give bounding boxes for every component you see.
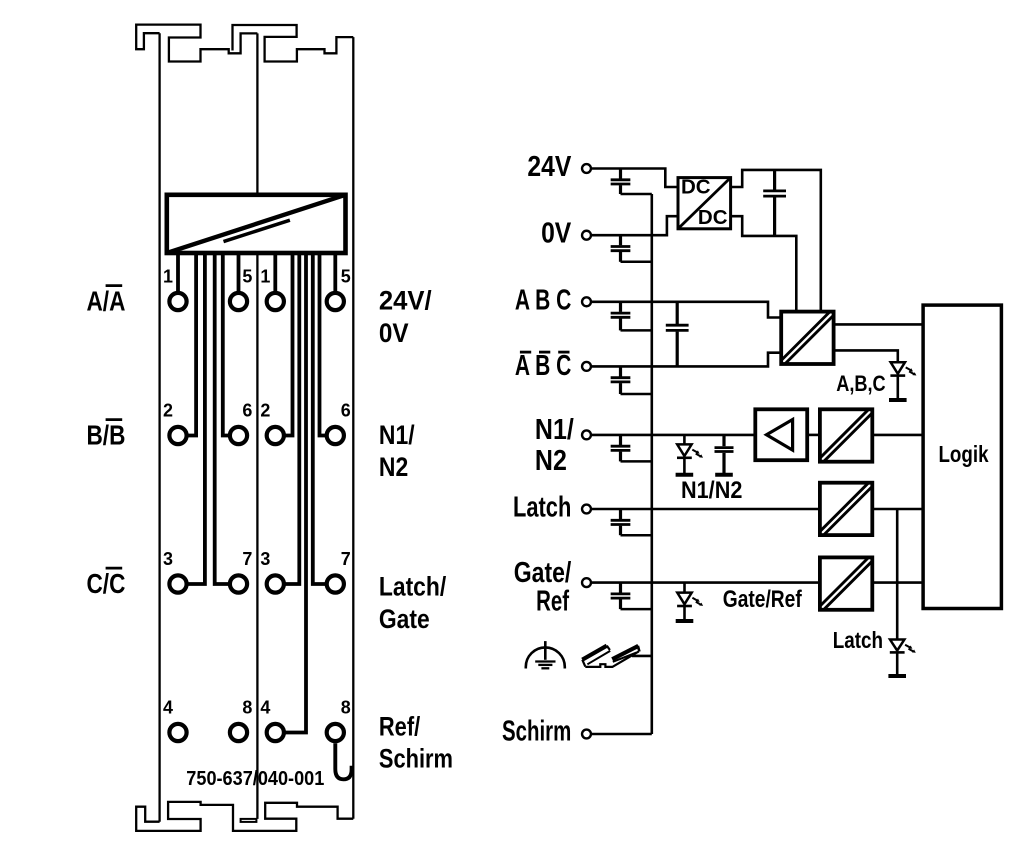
svg-text:B/B: B/B xyxy=(87,420,126,451)
wire Latch to isolator U4 xyxy=(592,508,820,511)
terminal 0V xyxy=(582,231,591,240)
wire 24V to DC/DC xyxy=(592,169,678,188)
capacitor on Abar line xyxy=(611,366,652,394)
contact circle terminal 7 left xyxy=(230,575,247,592)
svg-text:Schirm: Schirm xyxy=(502,716,571,747)
wire N1/N2 to amplifier xyxy=(592,434,756,437)
svg-text:Ref: Ref xyxy=(536,586,570,617)
label B/Bbar xyxy=(87,420,126,451)
contact circle terminal 1 right xyxy=(267,293,284,310)
svg-text:6: 6 xyxy=(341,399,351,420)
terminal Latch xyxy=(582,505,591,514)
contact circle terminal 6 left xyxy=(230,427,247,444)
bus connector K1 box with diagonal xyxy=(167,195,346,253)
wire isolator U5 to Logik xyxy=(872,581,923,584)
terminal 24V xyxy=(582,164,591,173)
shield hook on terminal 8 xyxy=(335,743,351,779)
pin wire terminal 1 right half xyxy=(273,253,277,292)
contact circle terminal 4 left xyxy=(169,724,186,741)
pin wire terminal 2 right half xyxy=(285,253,293,436)
amplifier A1 xyxy=(755,409,807,460)
wire 0V to DC/DC xyxy=(592,216,678,235)
wire center divider of module (upper) xyxy=(256,33,258,194)
pin wire terminal 5 right half xyxy=(333,253,337,292)
pin wire terminal 3 left half xyxy=(187,253,205,584)
svg-text:7: 7 xyxy=(341,547,351,568)
svg-text:A B C: A B C xyxy=(515,284,571,316)
svg-text:Gate/: Gate/ xyxy=(514,558,572,589)
contact circle terminal 4 right xyxy=(267,724,284,741)
svg-text:Ref/: Ref/ xyxy=(379,712,420,742)
wire amplifier to isolator U3 xyxy=(807,434,820,437)
svg-text:N2: N2 xyxy=(379,452,408,482)
wire right wall of terminal module xyxy=(352,37,354,819)
module bottom profile left foot xyxy=(136,802,353,831)
svg-text:0V: 0V xyxy=(541,217,571,249)
wire Gate/Ref to isolator U5 xyxy=(592,581,820,584)
pin wire terminal 2 left half xyxy=(187,253,196,436)
svg-text:Logik: Logik xyxy=(938,442,988,467)
contact circle terminal 1 left xyxy=(169,293,186,310)
svg-text:8: 8 xyxy=(242,696,252,717)
contact circle terminal 3 right xyxy=(267,575,284,592)
module top profile right latch xyxy=(233,25,354,62)
svg-text:1: 1 xyxy=(260,265,270,286)
wire left wall of terminal module xyxy=(158,33,160,822)
wire isolator U3 to Logik xyxy=(872,434,923,437)
svg-text:Latch: Latch xyxy=(513,492,571,523)
svg-text:8: 8 xyxy=(341,696,351,717)
wire isolator U2 to Logik xyxy=(834,323,923,326)
capacitor on Latch line xyxy=(611,509,652,535)
isolator U4 for Latch xyxy=(820,483,872,535)
terminal Schirm xyxy=(582,730,591,739)
module top profile left latch xyxy=(136,25,257,62)
contact circle terminal 5 right xyxy=(327,293,344,310)
capacitor C3 on DC/DC output xyxy=(763,170,786,236)
svg-text:N1/: N1/ xyxy=(535,414,574,446)
svg-text:0V: 0V xyxy=(379,319,409,348)
svg-text:3: 3 xyxy=(163,547,173,568)
contact circle terminal 2 right xyxy=(267,427,284,444)
svg-text:6: 6 xyxy=(242,399,252,420)
svg-text:DC: DC xyxy=(698,206,728,229)
contact circle terminal 6 right xyxy=(327,427,344,444)
LED A,B,C xyxy=(889,362,916,400)
LED Latch xyxy=(888,640,915,677)
isolator U2 for A B C xyxy=(781,312,833,364)
wire isolator U2 to LED xyxy=(834,350,898,362)
terminal N1/N2 xyxy=(582,430,591,439)
wire Schirm to shield bus xyxy=(592,733,652,736)
pin wire terminal 3 right half xyxy=(285,253,300,584)
LED Gate/Ref xyxy=(676,583,703,621)
svg-text:N1/N2: N1/N2 xyxy=(681,476,742,503)
svg-text:A B C: A B C xyxy=(515,350,571,382)
contact circle terminal 5 left xyxy=(230,293,247,310)
DIN rail icon xyxy=(582,646,639,667)
isolator U3 for N1/N2 xyxy=(820,409,872,461)
wire DC/DC output positive xyxy=(731,170,821,312)
pin wire terminal 7 left half xyxy=(215,253,229,584)
capacitor C5 between ABC lines xyxy=(666,302,689,367)
svg-text:4: 4 xyxy=(163,696,174,717)
LED N1/N2 xyxy=(676,435,703,475)
svg-text:5: 5 xyxy=(341,265,351,286)
capacitor C8 on N1/N2 line xyxy=(715,435,734,475)
module bottom divider tab xyxy=(241,819,257,822)
DC/DC converter U1 xyxy=(678,175,731,229)
svg-text:2: 2 xyxy=(163,399,173,420)
capacitor on Gate/Ref line xyxy=(611,583,652,610)
wire DIN rail to shield bus xyxy=(632,655,652,658)
Logik block xyxy=(923,305,1001,608)
contact circle terminal 8 right xyxy=(327,724,344,741)
svg-text:A/A: A/A xyxy=(87,286,126,317)
terminal Gate/Ref xyxy=(582,578,591,587)
terminal Abar Bbar Cbar xyxy=(582,362,591,371)
pin wire terminal 4 right half xyxy=(285,253,306,733)
svg-text:A,B,C: A,B,C xyxy=(836,372,885,396)
svg-text:C/C: C/C xyxy=(87,569,126,600)
svg-text:3: 3 xyxy=(260,547,270,568)
svg-text:7: 7 xyxy=(242,547,252,568)
svg-text:Gate/Ref: Gate/Ref xyxy=(723,585,803,613)
svg-text:24V/: 24V/ xyxy=(379,285,432,316)
label N1/N2 module xyxy=(379,420,415,482)
svg-text:24V: 24V xyxy=(527,151,571,183)
svg-text:750-637/040-001: 750-637/040-001 xyxy=(186,767,324,790)
label Abar Bbar Cbar xyxy=(515,350,571,382)
capacitor on N1/N2 line xyxy=(611,435,652,462)
contact circle terminal 3 left xyxy=(169,575,186,592)
capacitor on 0V line xyxy=(611,235,652,262)
wire A B C to isolator xyxy=(592,302,782,318)
svg-text:Latch: Latch xyxy=(833,628,883,653)
wire branch to Latch LED xyxy=(896,509,899,640)
pin wire terminal 6 right half xyxy=(320,253,326,436)
wire center divider of module (lower) xyxy=(256,253,258,819)
wire DC/DC output negative xyxy=(731,216,797,311)
capacitor on 24V line xyxy=(611,169,652,195)
label A/Abar xyxy=(87,286,126,317)
pin wire terminal 7 right half xyxy=(313,253,326,584)
label Latch/Gate xyxy=(379,572,446,635)
svg-text:2: 2 xyxy=(260,399,270,420)
svg-text:Gate: Gate xyxy=(379,604,430,634)
isolator U5 for Gate/Ref xyxy=(820,557,872,609)
shield bus wire xyxy=(650,194,653,734)
svg-text:Latch/: Latch/ xyxy=(379,572,446,602)
functional earth symbol xyxy=(526,641,565,668)
wire Abar Bbar Cbar to isolator xyxy=(592,353,782,367)
svg-text:DC: DC xyxy=(681,175,711,198)
svg-text:N1/: N1/ xyxy=(379,420,415,450)
contact circle terminal 8 left xyxy=(230,724,247,741)
label C/Cbar xyxy=(87,568,126,599)
label Ref/Schirm xyxy=(379,712,453,774)
capacitor on A B C line xyxy=(611,302,652,331)
pin wire terminal 6 left half xyxy=(223,253,229,436)
pin wire terminal 1 left half xyxy=(176,253,180,292)
svg-text:N2: N2 xyxy=(535,445,567,477)
label N1/N2 input xyxy=(535,414,574,477)
wire isolator U4 to Logik xyxy=(872,508,923,511)
svg-text:4: 4 xyxy=(260,696,271,717)
contact circle terminal 7 right xyxy=(327,575,344,592)
terminal A B C xyxy=(582,297,591,306)
pin wire terminal 5 left half xyxy=(237,253,241,292)
svg-text:1: 1 xyxy=(163,265,173,286)
contact circle terminal 2 left xyxy=(169,427,186,444)
label Gate/Ref input xyxy=(514,558,572,617)
label 24V/0V xyxy=(379,285,432,348)
svg-text:Schirm: Schirm xyxy=(379,744,453,774)
svg-text:5: 5 xyxy=(242,265,252,286)
